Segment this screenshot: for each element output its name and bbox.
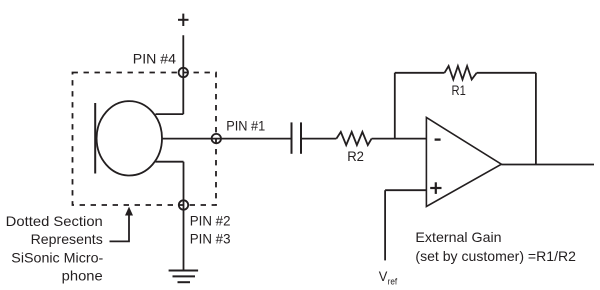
microphone element body — [97, 101, 162, 175]
wire Vref vertical — [384, 190, 386, 260]
resistor R2 — [336, 132, 371, 145]
svg-text:R1: R1 — [452, 82, 466, 98]
op-amp inverting input - sign — [435, 138, 441, 140]
wire mic bottom tap — [156, 161, 184, 163]
node PIN #1 — [212, 134, 221, 143]
svg-text:(set by customer) =R1/R2: (set by customer) =R1/R2 — [415, 248, 576, 264]
node PIN #4 — [179, 68, 188, 77]
wire mic top tap — [156, 113, 184, 115]
wire feedback top left horizontal — [395, 72, 445, 74]
svg-text:PIN #4: PIN #4 — [133, 50, 176, 66]
wire from + supply down to PIN4 node and mic top tap — [182, 35, 184, 114]
wire feedback top right horizontal — [477, 72, 536, 74]
svg-text:Dotted Section: Dotted Section — [6, 213, 103, 229]
wire capacitor to R2 — [301, 138, 336, 140]
node PIN #2/#3 — [179, 200, 188, 209]
op-amp U1 — [426, 118, 501, 207]
svg-text:SiSonic Micro-: SiSonic Micro- — [11, 250, 103, 266]
svg-text:PIN #2: PIN #2 — [190, 213, 231, 229]
svg-text:V: V — [379, 268, 388, 284]
wire non-inverting input horizontal — [385, 189, 426, 191]
ground — [169, 271, 199, 283]
op-amp non-inverting input + sign — [430, 182, 441, 194]
svg-text:External Gain: External Gain — [415, 229, 501, 245]
svg-text:ref: ref — [388, 277, 398, 287]
svg-text:PIN #3: PIN #3 — [190, 231, 231, 247]
wire mic output to PIN1 node and capacitor — [162, 138, 292, 140]
wire R2 to op-amp inverting input — [372, 138, 427, 140]
svg-text:PIN #1: PIN #1 — [226, 118, 265, 134]
resistor R1 — [445, 66, 477, 80]
power supply + symbol — [178, 14, 189, 26]
wire mic bottom tap down through PIN2 node to ground — [183, 162, 185, 271]
dotted section box — [73, 73, 217, 206]
wire feedback right vertical down to output — [535, 73, 537, 165]
svg-text:Represents: Represents — [31, 231, 103, 247]
annotation arrow to dotted section — [110, 215, 130, 242]
wire op-amp output — [501, 164, 594, 166]
svg-text:phone: phone — [62, 268, 103, 284]
capacitor C1 — [292, 122, 302, 153]
svg-text:R2: R2 — [347, 148, 364, 164]
microphone element plate — [94, 103, 96, 174]
wire feedback left vertical — [394, 73, 396, 139]
